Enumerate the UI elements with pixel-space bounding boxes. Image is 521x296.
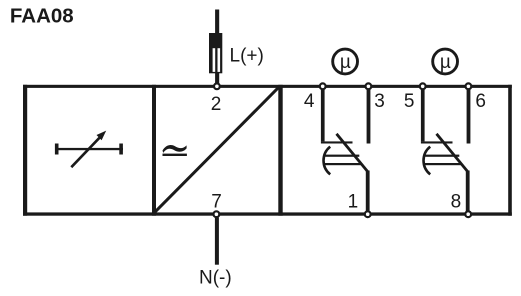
svg-text:N(-): N(-) (199, 268, 232, 289)
terminal circle 6 (466, 83, 472, 89)
svg-text:µ: µ (340, 52, 351, 73)
device outline top edge (23, 85, 512, 88)
wire supply L(+) drop to fuse (215, 10, 219, 34)
svg-text:L(+): L(+) (230, 45, 264, 66)
terminal circle 8 (465, 211, 471, 217)
terminal stub 3 (367, 86, 371, 144)
relay contact 1 arc (324, 147, 331, 175)
wire blade to terminal 8 (466, 171, 470, 214)
svg-text:4: 4 (304, 91, 315, 112)
terminal stub 6 (467, 86, 471, 144)
terminal circle 1 (365, 211, 371, 217)
relay contact 2 cross line upper (423, 155, 459, 157)
micro-disconnection symbol 1 (333, 49, 358, 74)
micro-disconnection symbol 2 (433, 49, 458, 74)
wire terminal 7 to N(-) (215, 218, 219, 265)
relay contact 2 cross line lower (424, 163, 461, 165)
relay contact 1 cross line upper (323, 155, 359, 157)
svg-text:2: 2 (211, 94, 222, 115)
relay contact 2 moving blade (437, 134, 469, 172)
wire fuse to terminal 2 (215, 73, 219, 84)
relay contact 1 cross line lower (324, 163, 361, 165)
setpoint adjuster symbol (left box) (55, 131, 123, 168)
wire blade to terminal 1 (366, 171, 370, 214)
AC/DC symbol (163, 145, 187, 156)
svg-text:6: 6 (475, 91, 486, 112)
relay contact 2 arc (424, 147, 431, 175)
terminal circle 3 (366, 83, 372, 89)
fuse F1 (209, 33, 222, 73)
terminal circle 2 (214, 83, 220, 89)
svg-text:3: 3 (374, 91, 385, 112)
relay contact 1 moving blade (337, 134, 369, 172)
device outline bottom edge (23, 212, 512, 215)
terminal circle 4 (320, 83, 326, 89)
terminal circle 5 (420, 83, 426, 89)
device outline right edge (508, 85, 512, 216)
svg-text:5: 5 (404, 91, 415, 112)
fixed contact bar of contact 1 (321, 141, 353, 143)
converter diagonal (middle box) (155, 88, 278, 212)
svg-text:8: 8 (451, 191, 462, 212)
fixed contact bar of contact 2 (421, 141, 453, 143)
svg-text:1: 1 (348, 191, 359, 212)
divider left/middle box (152, 85, 156, 216)
divider middle/right box (278, 85, 282, 216)
device outline left edge (23, 85, 27, 216)
terminal stub 5 (421, 86, 425, 141)
terminal stub 4 (321, 86, 325, 141)
svg-text:FAA08: FAA08 (10, 4, 74, 27)
svg-text:µ: µ (440, 52, 451, 73)
svg-text:7: 7 (211, 191, 222, 212)
terminal circle 7 (214, 211, 220, 217)
